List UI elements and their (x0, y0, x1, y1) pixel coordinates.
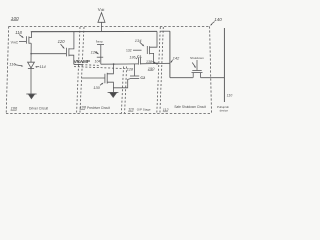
svg-text:134: 134 (135, 38, 142, 43)
label arrow 138 (152, 61, 154, 64)
wire diode to ground (30, 68, 32, 94)
label arrow 126 (95, 52, 97, 53)
outer dashed border: left (6, 26, 9, 113)
wire pad vertical (223, 28, 225, 102)
label arrow 114 (37, 66, 40, 68)
label arrow 134 (140, 42, 143, 45)
capacitor C1 (137, 58, 139, 65)
svg-text:138: 138 (146, 60, 152, 64)
svg-text:Safe Shutdown Circuit: Safe Shutdown Circuit (174, 105, 206, 109)
label arrow 130 (100, 84, 102, 86)
svg-text:C1: C1 (137, 55, 142, 59)
svg-text:114: 114 (39, 64, 46, 69)
svg-text:128: 128 (127, 67, 134, 71)
wire Q118 source to diode (30, 43, 32, 62)
svg-text:Driver Circuit: Driver Circuit (29, 107, 48, 111)
transistor Q118 (25, 36, 27, 43)
label arrow 118 (19, 35, 22, 38)
svg-text:130: 130 (93, 85, 100, 90)
label arrow 120 (61, 44, 64, 47)
wire Vdd stub (101, 22, 103, 31)
svg-text:Iramp: Iramp (96, 39, 103, 43)
transistor Q144 (192, 70, 201, 72)
outer dashed border: right (210, 26, 212, 113)
capacitor C2 (130, 75, 139, 77)
svg-text:device: device (220, 109, 229, 113)
svg-text:C2: C2 (140, 76, 145, 80)
label arrow 140 corner (211, 22, 214, 25)
wire gate stub of Q134 (133, 49, 142, 51)
wire C2 top lead (134, 64, 136, 76)
svg-text:118: 118 (15, 30, 22, 35)
svg-text:106: 106 (11, 105, 18, 110)
wire C1 to node 138 (141, 63, 157, 65)
wire Vdd rail (31, 30, 157, 32)
svg-text:100: 100 (11, 16, 19, 22)
svg-text:140: 140 (214, 17, 222, 22)
dashed horizontal divider A (ramp gen bottom) (74, 64, 100, 65)
svg-text:108: 108 (80, 106, 87, 110)
label arrow 142 (171, 60, 172, 62)
svg-text:120: 120 (58, 39, 66, 44)
node tap to Q120 gate (30, 53, 32, 55)
wire to Q120 gate (31, 53, 66, 55)
svg-text:VINC: VINC (11, 41, 19, 45)
dashed divider pair between driver box and predriver box (77, 27, 80, 113)
current source Iramp I126 (97, 44, 104, 46)
svg-text:116: 116 (9, 61, 16, 66)
label arrow 116 (15, 65, 22, 66)
svg-text:Vdd: Vdd (98, 7, 105, 12)
dashed divider pair between predriver box and O/P stage box (121, 67, 123, 114)
ground (predriver box) (108, 91, 119, 93)
svg-text:110: 110 (128, 107, 134, 111)
svg-text:142: 142 (173, 55, 180, 60)
wire Q144 gate stem (196, 60, 198, 70)
node 138 dot (156, 63, 158, 65)
svg-text:VRAMP: VRAMP (74, 59, 91, 65)
wire ramp node (101, 63, 138, 65)
ground (driver box) (26, 93, 36, 95)
wire Q120 source stub (74, 63, 83, 65)
dashed horizontal divider B (predriver top) (74, 67, 128, 69)
diode D114 (28, 62, 35, 68)
Vdd supply triangle (98, 13, 105, 23)
svg-text:112: 112 (163, 108, 169, 112)
svg-text:136: 136 (129, 55, 135, 59)
wire node 138 to shutdown box (157, 62, 170, 64)
transistor Q130 (82, 77, 105, 79)
svg-text:132: 132 (126, 48, 132, 52)
svg-text:O/P Stage: O/P Stage (137, 108, 151, 112)
wire vertical x170 (169, 31, 171, 77)
node junction dot Q130 drain (113, 63, 115, 65)
label arrow 136 (136, 58, 137, 59)
label arrow shutdown gate (192, 63, 195, 67)
svg-text:104: 104 (95, 59, 101, 63)
svg-text:Predriver Circuit: Predriver Circuit (87, 106, 110, 110)
svg-text:Shutdown: Shutdown (190, 56, 204, 60)
wire C2 bottom to Q130 source (113, 79, 130, 88)
dashed divider pair between O/P stage box and shutdown box (157, 27, 161, 113)
wire to Q144 (170, 77, 193, 79)
outer dashed border: bottom (6, 112, 212, 114)
svg-text:150: 150 (148, 66, 155, 71)
svg-text:126: 126 (91, 49, 98, 54)
outer dashed border: top (9, 25, 210, 27)
svg-text:110: 110 (227, 93, 233, 97)
wire Vdd rail stub right (161, 30, 171, 32)
wire Q144 to pad (201, 77, 225, 79)
transistor Q134 (146, 46, 148, 54)
wire gate input of Q118 (19, 41, 26, 43)
transistor Q120 (65, 48, 67, 57)
